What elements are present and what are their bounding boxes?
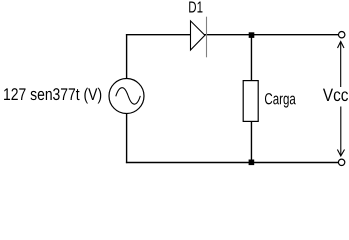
svg-text:127 sen377t (V): 127 sen377t (V) (3, 86, 102, 105)
svg-text:Carga: Carga (264, 89, 296, 107)
svg-text:Vcc: Vcc (323, 85, 348, 105)
svg-text:D1: D1 (188, 0, 203, 16)
